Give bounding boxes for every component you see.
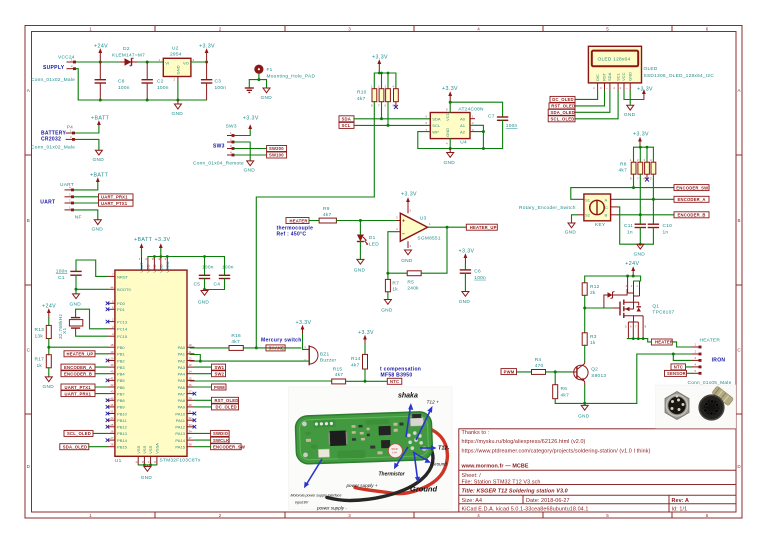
svg-text:PA6: PA6 — [178, 385, 186, 390]
ground flag R7 — [381, 300, 393, 314]
regulator U2 2954 — [159, 46, 195, 83]
svg-text:PD1: PD1 — [117, 307, 126, 312]
svg-text:R14: R14 — [351, 356, 361, 362]
svg-text:www.mormon.fr — MCBE: www.mormon.fr — MCBE — [461, 464, 529, 470]
EEPROM U4 AT24C08N — [426, 106, 485, 145]
svg-text:16: 16 — [189, 383, 193, 387]
wire sw3 pin2 to gnd — [235, 142, 251, 161]
svg-text:A: A — [605, 197, 608, 202]
svg-text:UART: UART — [60, 182, 74, 188]
svg-text:SW3: SW3 — [226, 123, 237, 129]
svg-text:C1: C1 — [58, 275, 65, 281]
wire R4 to base — [546, 371, 572, 373]
svg-text:MF58 B3950: MF58 B3950 — [381, 372, 413, 378]
ground flag encoder caps — [634, 244, 646, 257]
svg-text:27: 27 — [110, 436, 114, 440]
global label ENCODER_SW — [674, 185, 709, 191]
wire heater to R9 — [309, 220, 319, 222]
svg-text:KiCad E.D.A. kicad 5.0.1-33ce: KiCad E.D.A. kicad 5.0.1-33cea8e68ubuntu… — [462, 506, 589, 512]
power flag +24V — [94, 44, 108, 63]
blue annotation arrows — [304, 403, 437, 488]
svg-text:A: A — [737, 88, 740, 93]
svg-text:R9: R9 — [323, 206, 330, 212]
svg-text:R16: R16 — [231, 333, 241, 339]
capacitor C1 100n NRST — [56, 260, 108, 289]
svg-text:PB14: PB14 — [117, 438, 128, 443]
uart connector P3 — [40, 182, 74, 211]
svg-text:PB8: PB8 — [117, 398, 125, 403]
svg-text:GND: GND — [578, 414, 590, 420]
svg-text:38: 38 — [189, 443, 193, 447]
wire Q1 drain bus — [627, 338, 647, 340]
svg-text:Date: 2018-06-27: Date: 2018-06-27 — [526, 498, 570, 504]
svg-text:UART_PRX1: UART_PRX1 — [65, 391, 92, 396]
svg-text:Ground: Ground — [432, 462, 448, 467]
svg-text:SDA: SDA — [432, 116, 441, 121]
svg-text:+3.3V: +3.3V — [199, 44, 215, 50]
IC3 — [381, 440, 390, 448]
wire encoder S2 to gnd — [572, 215, 578, 223]
svg-text:HEATER: HEATER — [290, 218, 308, 223]
global label ENCODER_A — [674, 196, 709, 202]
svg-text:NF: NF — [75, 214, 82, 220]
svg-text:KEY: KEY — [595, 222, 606, 228]
svg-text:RST_OLED: RST_OLED — [215, 398, 239, 403]
solder pads cluster — [407, 433, 411, 437]
svg-text:PB1: PB1 — [117, 352, 125, 357]
wire encoder B row — [618, 214, 675, 216]
svg-text:PA9: PA9 — [178, 405, 186, 410]
svg-text:SCL_OLED: SCL_OLED — [551, 117, 575, 122]
wire C1 gnd BOOT0 — [76, 288, 108, 290]
svg-text:1k: 1k — [37, 363, 43, 369]
svg-text:PA14: PA14 — [175, 438, 185, 443]
photo background — [656, 385, 736, 428]
svg-text:+BATT: +BATT — [91, 115, 110, 121]
svg-text:BZ1: BZ1 — [320, 351, 330, 357]
wire R8 bottoms — [633, 174, 635, 187]
mcu bottom pin names — [136, 443, 160, 454]
mounting hole F1 — [254, 65, 315, 80]
global label HEATER out — [651, 339, 673, 345]
svg-text:SW3: SW3 — [213, 143, 225, 149]
wire opamp output — [428, 226, 467, 228]
svg-text:PA0: PA0 — [178, 345, 186, 350]
svg-text:GND: GND — [141, 475, 153, 481]
svg-text:+3.3V: +3.3V — [243, 115, 259, 121]
svg-text:ENCODER_SW: ENCODER_SW — [676, 185, 708, 190]
svg-text:SCL: SCL — [432, 123, 441, 128]
wire gate — [585, 307, 613, 309]
global label SW1 PA3 — [212, 364, 226, 370]
svg-text:T12-: T12- — [438, 446, 449, 452]
svg-text:R17: R17 — [35, 357, 45, 363]
svg-text:100n: 100n — [215, 85, 227, 91]
capacitor C3 100n — [201, 62, 226, 100]
global label NTC — [387, 378, 402, 384]
ground flag C1 — [70, 294, 82, 308]
wire mercury pull-up to PA0 net — [256, 197, 374, 347]
svg-text:A: A — [27, 88, 30, 93]
global label SENSOR pin5 — [665, 370, 687, 376]
svg-text:10: 10 — [189, 343, 193, 347]
photo background — [289, 387, 453, 510]
resistor R4 470 — [532, 357, 546, 375]
wire battery pin1 to +BATT — [75, 125, 99, 133]
svg-text:R7: R7 — [392, 280, 399, 286]
svg-text:DC_OLED: DC_OLED — [216, 405, 237, 410]
svg-text:PB2: PB2 — [117, 358, 125, 363]
mcu no-connect right — [193, 392, 197, 429]
svg-text:GND: GND — [92, 227, 104, 233]
svg-text:4k7: 4k7 — [619, 168, 628, 174]
svg-text:GND: GND — [261, 95, 273, 101]
svg-text:GND: GND — [43, 384, 55, 390]
power flag +3.3V — [199, 44, 215, 63]
svg-text:1k: 1k — [590, 340, 596, 346]
ground flag U4 — [444, 153, 456, 167]
svg-text:31: 31 — [189, 410, 193, 414]
svg-text:+3.3V: +3.3V — [155, 237, 171, 243]
svg-text:30: 30 — [189, 403, 193, 407]
svg-text:Rotary_Encoder_Switch: Rotary_Encoder_Switch — [519, 205, 576, 211]
svg-text:GND: GND — [354, 268, 366, 274]
svg-text:GND: GND — [624, 112, 636, 118]
svg-text:+24V: +24V — [625, 261, 639, 267]
svg-text:100n: 100n — [56, 269, 68, 275]
svg-text:SW200: SW200 — [269, 146, 284, 151]
pin stub A0 — [470, 118, 475, 120]
ground flag Q2 — [578, 405, 590, 419]
wire mounting hole gnd tee — [258, 74, 260, 80]
wire sw3 pin3 — [235, 148, 267, 150]
svg-text:https://mysku.ru/blog/aliexpre: https://mysku.ru/blog/aliexpress/62126.h… — [462, 439, 586, 445]
wire SCL — [354, 124, 430, 126]
svg-text:input:8V: input:8V — [295, 501, 309, 505]
svg-text:37: 37 — [189, 436, 193, 440]
global label SHAKE — [266, 345, 285, 351]
resistor R9 4k7 — [319, 206, 336, 223]
wire OLED SCL — [575, 91, 618, 119]
global label NTC pin4 — [671, 364, 686, 370]
svg-text:25: 25 — [110, 423, 114, 427]
power flag +24V divider — [42, 303, 56, 318]
led D1 — [357, 221, 379, 260]
svg-text:PD0: PD0 — [117, 301, 126, 306]
svg-text:GND: GND — [93, 157, 105, 163]
svg-text:+BATT: +BATT — [134, 237, 153, 243]
svg-text:SDA: SDA — [342, 117, 351, 122]
svg-text:28: 28 — [110, 443, 114, 447]
wire R5 to output — [421, 227, 447, 273]
wire C5 C4 gnd — [205, 289, 225, 291]
svg-text:32.768kHz: 32.768kHz — [58, 313, 64, 339]
global label SDA_OLED — [548, 109, 575, 115]
svg-text:R6: R6 — [561, 386, 568, 392]
global label UART_PRX1 PB7 — [61, 391, 95, 397]
wire opamp plus input feedback — [388, 232, 397, 274]
svg-text:ENCODER_B: ENCODER_B — [64, 372, 92, 377]
diode D2 KLEM147=M7 — [112, 46, 145, 66]
svg-text:C10: C10 — [663, 223, 673, 229]
svg-text:Title: KSGER T12 Soldering sta: Title: KSGER T12 Soldering station V3.0 — [462, 489, 568, 495]
earth ground symbol — [245, 88, 254, 93]
svg-text:HEATER: HEATER — [655, 340, 673, 345]
svg-text:U2: U2 — [172, 46, 179, 52]
wire heater label to pin1 — [672, 342, 692, 347]
svg-text:STM32F103C8Tx: STM32F103C8Tx — [160, 458, 201, 464]
wire PA1/PA2 to buzzer pin2 — [190, 355, 309, 362]
svg-text:2k: 2k — [590, 290, 596, 296]
power flag +3.3V R14 — [358, 330, 374, 345]
wire drain to heater label — [648, 339, 652, 342]
svg-text:WP: WP — [432, 130, 439, 135]
svg-text:PB9: PB9 — [117, 405, 125, 410]
svg-text:Mercury switch: Mercury switch — [261, 337, 302, 343]
wire sw3 pin4 — [235, 154, 267, 156]
svg-text:47: 47 — [148, 460, 152, 464]
resistor R3 1k — [582, 333, 597, 362]
svg-text:B: B — [605, 213, 608, 218]
svg-text:D/C: D/C — [595, 74, 600, 81]
svg-text:+BATT: +BATT — [90, 173, 109, 179]
buzzer BZ1 — [304, 345, 336, 365]
mounting pads — [302, 421, 307, 426]
svg-text:T12 +: T12 + — [427, 400, 440, 406]
capacitor C10 1n — [648, 223, 672, 244]
silk header row — [313, 420, 335, 428]
svg-text:C4: C4 — [214, 281, 221, 287]
svg-text:4k7: 4k7 — [323, 212, 332, 218]
svg-text:IRON: IRON — [712, 358, 726, 364]
svg-text:PA7: PA7 — [178, 391, 186, 396]
svg-text:F1: F1 — [267, 67, 273, 73]
wire SDA — [354, 118, 430, 120]
resistor R12 2k — [582, 276, 599, 333]
global label ENCODER_A PB3 — [61, 364, 95, 370]
power flag +24V Q1 — [625, 261, 639, 276]
svg-text:VCC24: VCC24 — [58, 55, 75, 61]
svg-text:U1: U1 — [115, 458, 122, 464]
svg-text:PB0: PB0 — [117, 345, 125, 350]
svg-text:2954: 2954 — [170, 52, 182, 58]
main IC — [330, 430, 347, 446]
svg-text:+3.3V: +3.3V — [633, 132, 649, 138]
svg-text:KLEM147=M7: KLEM147=M7 — [112, 53, 145, 59]
connector GX16 female black — [699, 386, 734, 420]
global label HEATER_UP output — [466, 224, 497, 230]
ground flag divider — [43, 377, 55, 390]
wire R16 to shake label — [243, 347, 301, 349]
wire R10 bottoms — [373, 102, 375, 197]
svg-text:PB10: PB10 — [117, 411, 128, 416]
title block — [459, 429, 736, 513]
svg-text:D1: D1 — [369, 235, 376, 241]
svg-text:PB5: PB5 — [117, 378, 125, 383]
svg-text:Mounting_Hole_PAD: Mounting_Hole_PAD — [267, 73, 316, 79]
svg-text:PA13: PA13 — [175, 431, 185, 436]
svg-text:PWM: PWM — [504, 369, 515, 374]
svg-text:1k: 1k — [392, 287, 398, 293]
svg-text:HEATER_UP: HEATER_UP — [470, 225, 497, 230]
svg-text:OLED: OLED — [644, 66, 658, 72]
svg-text:VSS: VSS — [142, 445, 147, 453]
wire PA5 long to R15 — [190, 380, 332, 382]
svg-text:AT24C08N: AT24C08N — [458, 106, 484, 112]
svg-text:A2: A2 — [460, 130, 466, 135]
svg-text:SCL_OLED: SCL_OLED — [67, 431, 91, 436]
svg-text:PA10: PA10 — [175, 411, 185, 416]
svg-text:+: + — [402, 219, 405, 225]
power flag +BATT — [91, 115, 110, 125]
svg-text:DC_OLED: DC_OLED — [552, 97, 573, 102]
global label SW200 — [267, 146, 287, 152]
resistor pack R8 4k7 (4 resistors) — [619, 158, 656, 180]
capacitor C4 100n — [214, 257, 234, 290]
svg-text:Buzzer: Buzzer — [320, 357, 337, 363]
svg-text:A0: A0 — [460, 116, 466, 121]
svg-text:PB11: PB11 — [117, 418, 127, 423]
arrow power interface — [306, 459, 322, 485]
svg-text:Ref : 450°C: Ref : 450°C — [277, 231, 307, 237]
svg-text:C3: C3 — [215, 79, 222, 85]
svg-text:29: 29 — [189, 396, 193, 400]
wire encoder S1 to ENCODER_SW row — [571, 188, 674, 200]
frame column numbers — [89, 27, 709, 518]
svg-text:3.3M: 3.3M — [392, 452, 397, 454]
svg-text:44: 44 — [110, 285, 114, 289]
svg-text:ENCODER_A: ENCODER_A — [64, 365, 92, 370]
svg-text:U3: U3 — [420, 215, 427, 221]
wire PA0 to R16 — [190, 347, 229, 349]
svg-text:UART: UART — [40, 199, 55, 205]
svg-text:39: 39 — [110, 363, 114, 367]
svg-text:TPC8107: TPC8107 — [652, 310, 674, 316]
svg-text:32: 32 — [189, 416, 193, 420]
svg-text:GND: GND — [401, 258, 413, 264]
wire +24V top rail — [585, 275, 641, 277]
svg-text:Conn_01x02_Male: Conn_01x02_Male — [31, 145, 75, 151]
mosfet Q1 drain pins — [628, 316, 643, 339]
svg-text:C2: C2 — [157, 79, 164, 85]
svg-text:Conn_01x04_Remote: Conn_01x04_Remote — [193, 161, 244, 167]
wire U2 gnd — [177, 82, 179, 100]
svg-text:Sheet: /: Sheet: / — [462, 473, 482, 479]
wire mcu vdd bus — [148, 256, 225, 258]
global label HEATER input — [286, 218, 309, 224]
svg-text:power supply +: power supply + — [346, 483, 378, 488]
frame row letters — [27, 88, 742, 469]
svg-text:+3.3V: +3.3V — [358, 330, 374, 336]
svg-text:SWDIO: SWDIO — [213, 431, 229, 436]
svg-text:C6: C6 — [474, 269, 481, 275]
svg-text:Rev: A: Rev: A — [672, 498, 689, 504]
wire uart pin3 — [74, 196, 98, 198]
capacitor C6 100n — [460, 265, 486, 292]
junction — [146, 61, 149, 64]
green PCB board — [295, 412, 433, 465]
svg-text:VI: VI — [165, 61, 169, 66]
IC2 — [379, 426, 391, 435]
svg-text:Q2: Q2 — [591, 367, 598, 373]
global label UART_PRX1 — [99, 194, 134, 200]
svg-text:VO: VO — [183, 61, 189, 66]
wire mcu vss bus — [138, 464, 157, 466]
mcu pin numbers left — [110, 272, 114, 446]
power flag +3.3V mcu — [155, 237, 171, 257]
ground flag battery — [93, 150, 105, 163]
mcu right pin stubs — [187, 347, 194, 447]
round sticker — [388, 444, 402, 458]
svg-text:shaka: shaka — [398, 393, 418, 400]
svg-text:C7: C7 — [488, 114, 495, 120]
svg-text:19: 19 — [110, 350, 114, 354]
svg-text:Thermistor: Thermistor — [379, 472, 406, 478]
wire U2 out — [191, 61, 207, 63]
right connector block — [410, 418, 423, 426]
svg-text:34: 34 — [189, 429, 193, 433]
svg-text:BOOT0: BOOT0 — [117, 287, 131, 292]
ground flag encoder — [565, 223, 577, 235]
svg-text:HEATER: HEATER — [700, 338, 721, 344]
black wire — [327, 434, 433, 501]
svg-text:SWCLK: SWCLK — [213, 438, 229, 443]
global label SWCLK PA14 — [211, 437, 230, 443]
svg-text:PA5: PA5 — [178, 378, 186, 383]
svg-text:100n: 100n — [118, 85, 130, 91]
global label SW2 PA4 — [212, 371, 226, 377]
svg-text:23: 23 — [136, 460, 140, 464]
mcu right pin names — [175, 345, 185, 450]
wire encoder C to gnd rail — [618, 207, 654, 244]
resistor R15 4k7 (NTC series) — [332, 366, 346, 384]
mcu left pin names — [117, 274, 131, 449]
svg-text:SW1: SW1 — [215, 365, 225, 370]
transistor Q2 S9013 — [571, 362, 606, 386]
svg-text:PB7: PB7 — [117, 391, 125, 396]
svg-text:20: 20 — [110, 357, 114, 361]
svg-text:PA11: PA11 — [176, 418, 186, 423]
svg-text:4k7: 4k7 — [351, 362, 360, 368]
capacitor C11 1n — [624, 223, 646, 244]
svg-text:−: − — [402, 232, 405, 238]
resistor R17 1k — [35, 347, 52, 377]
svg-text:PB6: PB6 — [117, 385, 125, 390]
svg-text:43: 43 — [110, 390, 114, 394]
mcu no-connect left — [106, 302, 110, 442]
wire OLED VCC to +3.3V — [624, 91, 644, 100]
svg-text:42: 42 — [110, 383, 114, 387]
global label SDA — [339, 116, 354, 122]
svg-text:GND: GND — [565, 229, 577, 235]
ground flag D1 — [354, 259, 366, 273]
svg-text:Size: A4: Size: A4 — [462, 498, 483, 504]
svg-text:14: 14 — [189, 370, 193, 374]
connector P1 SUPPLY Conn_01x02_Male — [31, 55, 76, 83]
wire uart pin4 to +BATT — [74, 182, 98, 190]
ground flag opamp — [401, 250, 413, 264]
svg-text:+3.3V: +3.3V — [459, 248, 475, 254]
svg-text:R15: R15 — [333, 366, 343, 372]
svg-text:13: 13 — [189, 363, 193, 367]
wire R10 top bus — [374, 72, 396, 74]
power flag +BATT mcu — [134, 237, 153, 257]
svg-text:100n: 100n — [202, 264, 214, 270]
svg-text:1n: 1n — [627, 229, 633, 235]
svg-text:VSSA: VSSA — [155, 443, 160, 454]
svg-text:S9013: S9013 — [591, 373, 606, 379]
wire supply pin2 down — [76, 69, 78, 100]
